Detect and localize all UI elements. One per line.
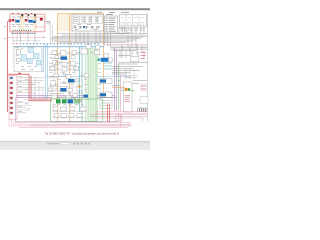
wire: diode outputs bbox=[17, 78, 45, 113]
green harness corridor bbox=[88, 48, 97, 122]
sensor sub-box bbox=[36, 17, 45, 27]
module label dashes bbox=[53, 104, 84, 107]
diode D5 bbox=[10, 97, 12, 99]
controller chip C bbox=[60, 88, 66, 91]
connector circle CN1 bbox=[47, 22, 50, 25]
fuse strip bbox=[120, 14, 147, 27]
relay R5 bbox=[97, 16, 102, 24]
separator column B bbox=[33, 15, 37, 31]
lamp (orange) main bbox=[125, 88, 128, 91]
signal wire (maroon) bbox=[120, 75, 122, 111]
motor M2 (green) bbox=[62, 99, 67, 103]
lamp unit tall box bbox=[124, 82, 133, 112]
diode outline boxes bbox=[10, 76, 13, 114]
diode D4 bbox=[10, 92, 12, 94]
svg-text:Fig. 107 4BD1T/4BG1T KIT - ci: Fig. 107 4BD1T/4BG1T KIT - circuit (ligh… bbox=[45, 132, 119, 136]
diode D6 bbox=[10, 102, 12, 104]
controller chip B bbox=[68, 79, 75, 82]
pump control unit outer enclosure bbox=[9, 14, 45, 32]
diode D8 bbox=[10, 112, 12, 114]
connector row bbox=[13, 30, 32, 31]
fusible link F1 bbox=[9, 19, 12, 22]
fuse strip lower connector row bbox=[122, 28, 145, 31]
wire: relay assembly pilot drops bbox=[42, 48, 44, 72]
red top border labels bbox=[12, 12, 32, 15]
controller chip F bbox=[100, 93, 106, 96]
connector list title bbox=[106, 13, 113, 16]
controller chip E bbox=[100, 79, 106, 82]
connector box right bbox=[140, 97, 148, 104]
mid-left cross wires bbox=[17, 85, 46, 110]
pager controls bbox=[48, 143, 90, 145]
pink bus lower bbox=[9, 113, 130, 127]
header labels bbox=[97, 12, 129, 13]
pump unit internal text haze bbox=[12, 17, 41, 28]
center connecting wires bbox=[49, 54, 81, 97]
relay K1 bbox=[28, 47, 33, 52]
switch S1 bbox=[16, 50, 20, 54]
module inner components bbox=[53, 106, 86, 111]
valve V2 bbox=[25, 19, 28, 21]
gray bus line bbox=[90, 115, 147, 117]
lamp unit labels (pink) bbox=[125, 52, 146, 102]
wire: module drops to bus bbox=[55, 122, 76, 127]
sensor unit box E bbox=[100, 78, 113, 83]
junction dots bbox=[22, 17, 23, 18]
module second row boxes bbox=[54, 113, 82, 117]
relay box text haze bbox=[74, 17, 99, 30]
center text haze bbox=[50, 52, 102, 99]
controller chip H bbox=[84, 95, 89, 98]
wire: pink feed top right bbox=[106, 44, 147, 46]
controller chip A bbox=[61, 56, 68, 59]
solenoid SV1 bbox=[15, 20, 19, 23]
relay R1 bbox=[73, 16, 78, 24]
relay K2 bbox=[33, 54, 39, 59]
wire: gray branch below pump bbox=[13, 39, 40, 41]
relay feed red comp bbox=[19, 73, 21, 75]
harness bundle (gray) bbox=[51, 27, 148, 48]
wire: interconnect drops bbox=[13, 25, 52, 43]
wire bbox=[45, 22, 51, 31]
pilot line (light blue band) bbox=[13, 46, 104, 48]
junction box JB1 bbox=[118, 28, 126, 33]
diode D2 bbox=[10, 82, 12, 84]
relay R3 bbox=[85, 16, 90, 24]
relay R2 bbox=[79, 16, 84, 24]
valve symbol top 2 bbox=[28, 14, 30, 16]
connector oval 2 bbox=[78, 100, 82, 103]
red stub label bbox=[43, 36, 45, 39]
wire: green stub bbox=[130, 90, 134, 92]
pump control unit enclosure bbox=[10, 15, 45, 32]
relay K3 bbox=[21, 55, 26, 61]
diode D1 bbox=[10, 77, 12, 79]
indicator (green) bbox=[128, 88, 130, 91]
relay K5 bbox=[36, 61, 41, 65]
motor M1 (green) bbox=[56, 99, 61, 103]
teal stub marks bbox=[104, 63, 112, 69]
wire stub right bbox=[142, 118, 144, 121]
diode D3 bbox=[10, 87, 12, 89]
inline connector ovals bbox=[55, 65, 67, 86]
pressure sensor PS1 bbox=[40, 18, 43, 21]
connector ellipse bbox=[55, 62, 59, 65]
switch S2 bbox=[17, 59, 21, 62]
relay assembly frame bbox=[14, 46, 44, 72]
right small box bbox=[141, 84, 147, 91]
pale green wire bbox=[85, 50, 87, 122]
signal wires (violet) bbox=[16, 48, 117, 111]
sensor wires (teal) bbox=[80, 47, 82, 122]
diode labels bbox=[19, 76, 22, 112]
violet bus lower line bbox=[16, 98, 119, 121]
wire: pink branch below pump bbox=[8, 37, 45, 39]
diode D7 bbox=[10, 107, 12, 109]
chip D aux box bbox=[109, 58, 113, 62]
relay K4 bbox=[27, 58, 32, 63]
module aux box bbox=[74, 100, 79, 104]
wire: gray feed top right bbox=[108, 45, 147, 47]
wire labels row (blue) bbox=[23, 42, 100, 45]
top separator bar bbox=[0, 8, 150, 10]
sensor unit box F bbox=[100, 92, 113, 97]
wire: pink crossover bbox=[118, 75, 138, 77]
solenoid SV2 bbox=[28, 20, 32, 23]
lamp (orange) 2 bbox=[78, 100, 80, 102]
component below bus bbox=[116, 116, 123, 121]
connector oval 1 bbox=[78, 91, 82, 94]
crossover grid bbox=[124, 69, 137, 79]
junction box JB2 bbox=[127, 29, 132, 33]
margin notes bbox=[4, 27, 7, 40]
wire: orange feed bbox=[112, 87, 125, 89]
controller chip D bbox=[101, 58, 109, 62]
relay assembly text haze bbox=[16, 48, 38, 70]
valve symbol top 3 bbox=[34, 14, 36, 16]
right mid boxes bbox=[86, 45, 109, 58]
controller connector list bbox=[104, 16, 117, 33]
signal wire (green) bbox=[118, 64, 120, 110]
right side wiring bbox=[110, 45, 147, 94]
controller chip G bbox=[68, 99, 73, 103]
center components bbox=[49, 49, 99, 99]
wire: unit top feeds bbox=[21, 15, 36, 20]
door control module (green frame) bbox=[51, 99, 103, 121]
label row C1..C12 bbox=[11, 32, 35, 35]
pilot wires (light blue) bbox=[46, 44, 131, 99]
page frame right border bbox=[146, 13, 148, 121]
separator column A bbox=[20, 15, 25, 31]
harness corridor (tan) bbox=[58, 14, 104, 32]
wire labels row (red part) bbox=[12, 42, 21, 45]
wire: pump unit to harness bbox=[21, 31, 36, 42]
indicator bbox=[83, 26, 85, 28]
fuse row bbox=[74, 26, 98, 28]
pink bus upper bbox=[90, 112, 147, 118]
diode/relay column module bbox=[9, 75, 17, 119]
terminal strip bottom right bbox=[138, 108, 148, 112]
lamp (orange) bbox=[78, 85, 80, 87]
mid-left text dashes bbox=[25, 80, 36, 110]
valve V1 bbox=[12, 19, 15, 21]
teal mark at chip bbox=[98, 58, 100, 61]
resistor block bbox=[131, 57, 139, 62]
wire: battery feed (red) bbox=[8, 21, 52, 112]
aux solenoid SV3 bbox=[33, 21, 36, 23]
bottom connector circles bbox=[75, 26, 100, 28]
valve symbol top 1 bbox=[21, 14, 23, 16]
cab fuse/relay box bbox=[72, 14, 104, 31]
relay R4 bbox=[91, 16, 96, 24]
gray bus lower line bbox=[30, 124, 132, 126]
red drop pair bbox=[108, 104, 110, 122]
connector box left column bbox=[100, 98, 112, 108]
wire: crossover verticals bbox=[35, 78, 43, 99]
